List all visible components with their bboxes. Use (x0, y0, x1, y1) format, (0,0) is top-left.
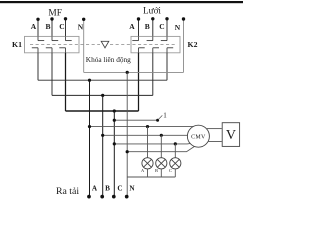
interlock triangle symbol (101, 41, 109, 48)
lamp B return stub (160, 169, 162, 177)
K2 pole B contact (147, 36, 159, 52)
wire K2-B down to bus (152, 53, 154, 96)
load drop wire C (113, 111, 115, 196)
load terminal arrow B (100, 195, 104, 199)
voltmeter V (222, 123, 239, 147)
bus B (52, 94, 153, 96)
wire K1-B down to bus (51, 53, 53, 96)
svg-text:Khóa liên động: Khóa liên động (86, 55, 131, 64)
svg-text:C: C (117, 185, 122, 193)
node C bus / C drop (113, 109, 116, 112)
svg-text:1: 1 (163, 112, 167, 120)
top border bar (0, 1, 243, 3)
node lamp C feed (174, 142, 177, 145)
MF neutral wire N (bypasses K1) (83, 19, 85, 72)
svg-text:Lưới: Lưới (143, 5, 161, 15)
svg-text:B: B (45, 22, 50, 31)
load terminal arrow C (112, 195, 116, 199)
wire K1-C down to bus (65, 53, 67, 111)
MF terminal C stub (65, 19, 67, 37)
lamp A return stub (147, 169, 149, 177)
neutral bus N (84, 71, 184, 73)
lamp C feed stub (174, 144, 176, 158)
indicator lamp A (142, 158, 153, 169)
load terminal arrow A (87, 195, 91, 199)
svg-text:B: B (105, 185, 110, 193)
load drop wire N (126, 72, 128, 196)
tap wire C to CMV (114, 142, 191, 145)
wire CMV to voltmeter (lower) (208, 141, 222, 143)
tap wire B to CMV (103, 134, 190, 136)
svg-text:C: C (59, 22, 64, 31)
svg-text:Ra tải: Ra tải (56, 186, 79, 197)
svg-text:C: C (169, 168, 172, 173)
wire K2-A down to bus (138, 53, 140, 111)
Luoi terminal B stub (152, 19, 154, 37)
interlock dashed linkage (right segment) (110, 44, 176, 46)
svg-text:B: B (145, 22, 150, 31)
svg-text:C: C (159, 22, 164, 31)
indicator lamp C (170, 158, 181, 169)
svg-text:A: A (92, 185, 98, 193)
lamp B feed stub (160, 135, 162, 158)
voltmeter selector switch CMV (187, 125, 209, 147)
node A bus / A drop (88, 79, 91, 82)
MF terminal A stub (37, 19, 39, 36)
svg-text:K2: K2 (188, 40, 198, 49)
indicator lamp B (156, 158, 167, 169)
bus A (38, 79, 167, 81)
lamp common return wire to N (127, 176, 175, 178)
wire stub 1 (numbered node) (114, 119, 157, 121)
svg-text:A: A (31, 22, 37, 31)
wire K2-C down to bus (166, 53, 168, 80)
load terminal arrow N (125, 195, 129, 199)
node lamp B feed (160, 134, 163, 137)
load drop wire B (102, 95, 104, 196)
Luoi terminal C stub (166, 19, 168, 37)
svg-text:A: A (129, 22, 135, 31)
interlock dashed linkage (left segment) (30, 44, 100, 46)
K1 pole A contact (32, 36, 44, 52)
svg-text:K1: K1 (12, 40, 22, 49)
Luoi terminal A stub (138, 19, 140, 36)
node N bus / N drop (126, 71, 129, 74)
tap wire A to CMV (90, 126, 196, 128)
K1 pole C contact (59, 36, 71, 52)
svg-text:N: N (129, 185, 135, 193)
wire CMV to voltmeter (upper) (207, 128, 222, 130)
K2 pole A contact (132, 36, 144, 52)
node B bus / B drop (101, 94, 104, 97)
K1 pole B contact (46, 36, 58, 52)
svg-text:A: A (141, 168, 145, 173)
lamp C return stub (174, 169, 176, 177)
contactor K2 box (131, 36, 180, 52)
svg-text:N: N (175, 23, 181, 32)
svg-text:CMV: CMV (191, 134, 206, 140)
bus C (66, 110, 139, 112)
wire K1-A down to bus (37, 53, 39, 80)
svg-text:B: B (155, 168, 158, 173)
lamp A feed stub (147, 127, 149, 158)
MF terminal B stub (51, 19, 53, 36)
svg-text:V: V (226, 128, 236, 143)
svg-text:MF: MF (48, 8, 62, 18)
svg-text:N: N (78, 23, 84, 32)
Luoi neutral wire N (bypasses K2) (183, 19, 185, 72)
load drop wire A (89, 80, 91, 196)
node lamp A feed (146, 125, 149, 128)
tap wire N to CMV (127, 146, 195, 152)
contactor K1 box (25, 36, 80, 52)
K2 pole C contact (161, 36, 173, 52)
